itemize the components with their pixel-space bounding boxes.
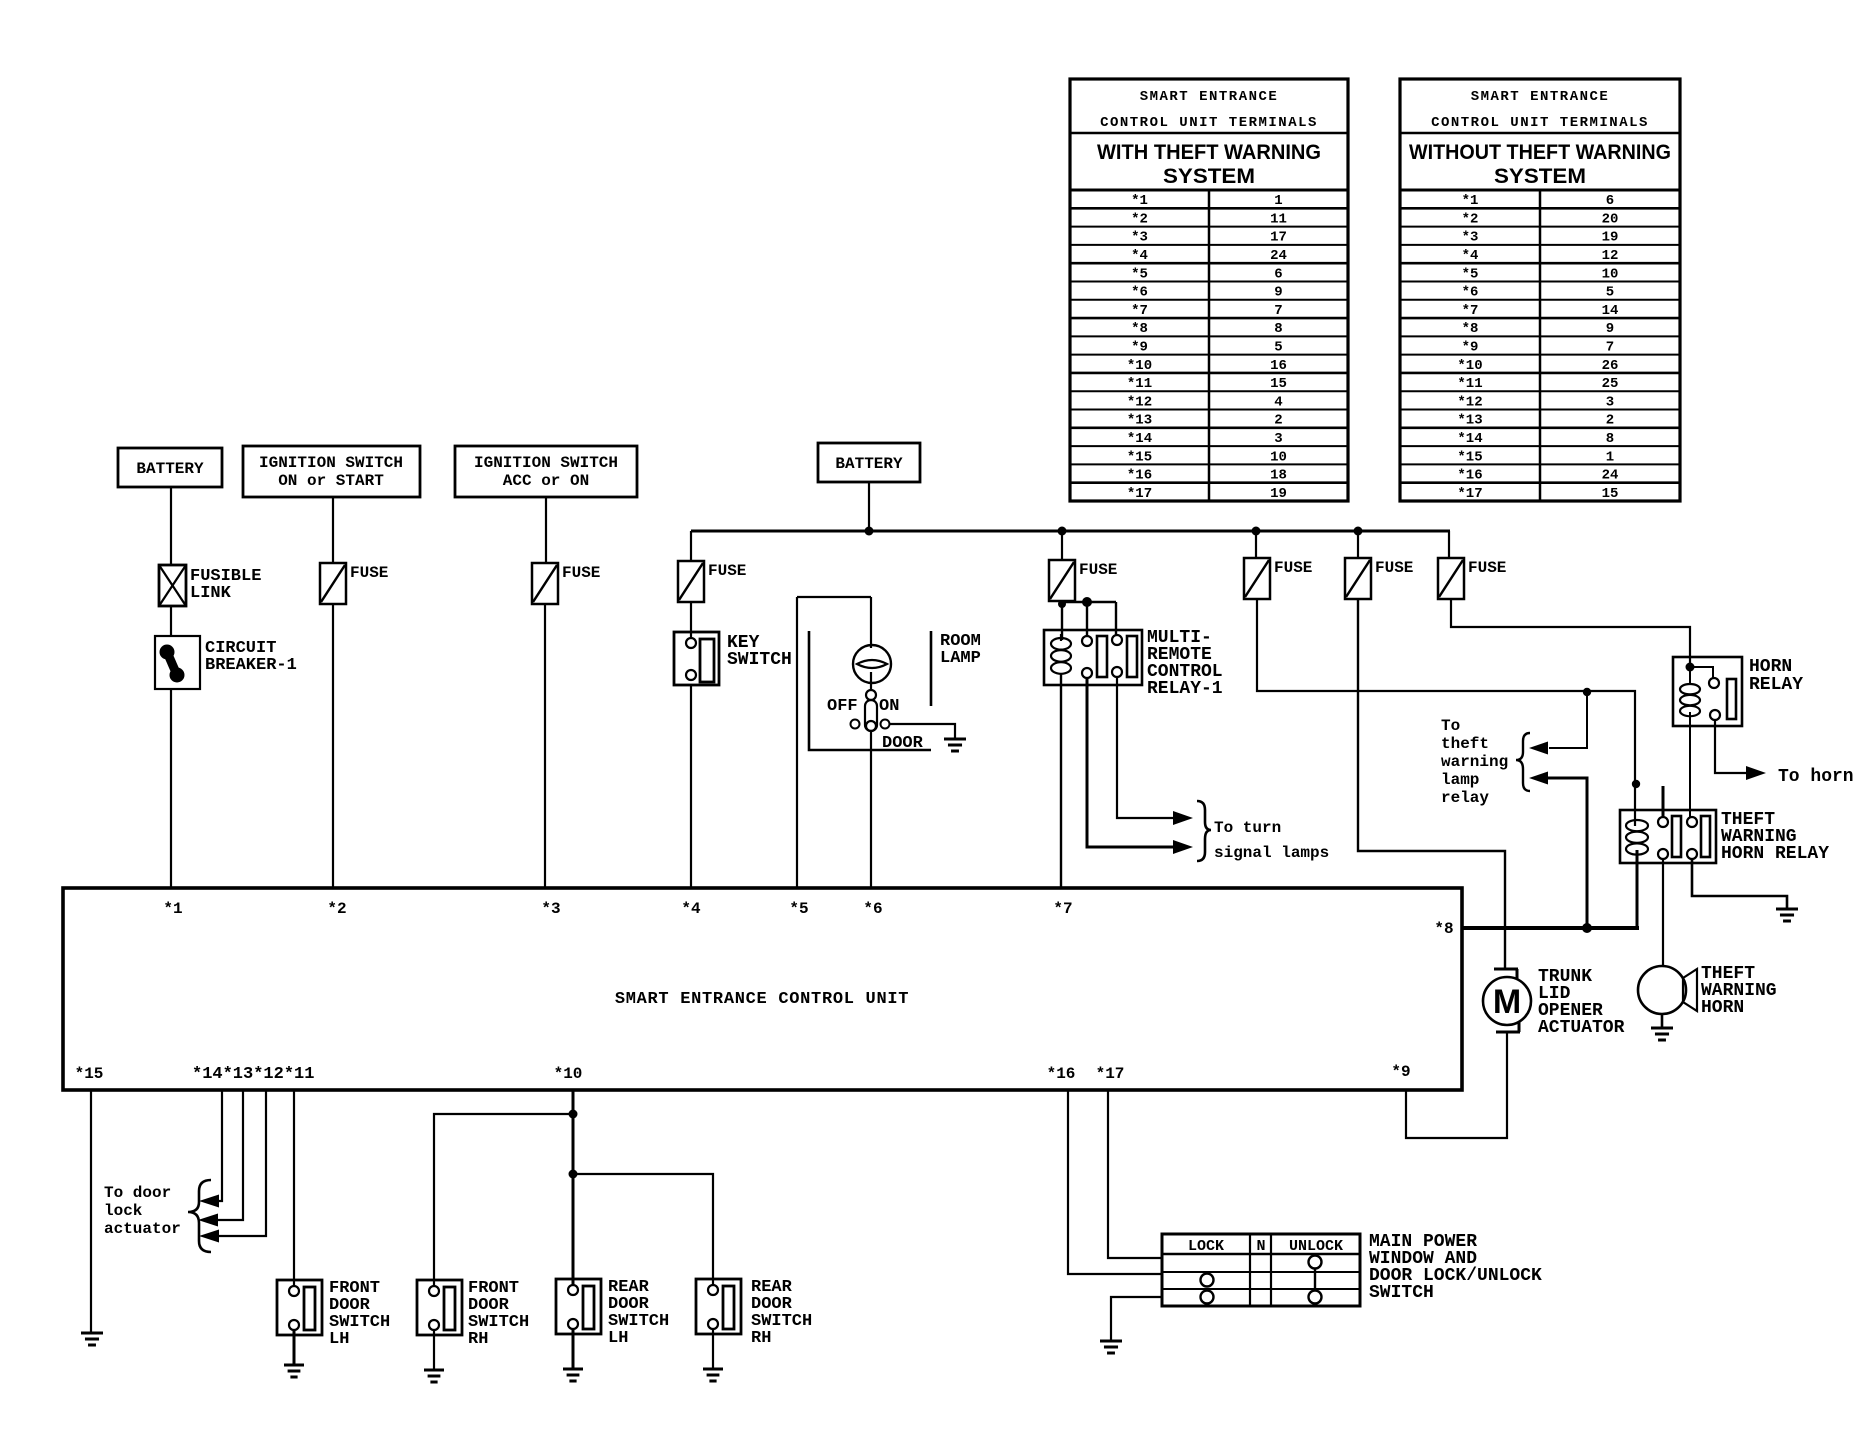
wire bus to fuse F8 (1448, 531, 1450, 558)
svg-text:*11: *11 (1457, 376, 1482, 392)
svg-text:SMART ENTRANCE: SMART ENTRANCE (1471, 89, 1610, 105)
wire terminal *14 to door lock actuator (219, 1090, 222, 1201)
switch contact unlock 2 (1309, 1291, 1322, 1304)
svg-text:M: M (1493, 983, 1521, 1021)
svg-text:signal lamps: signal lamps (1214, 844, 1329, 862)
svg-text:relay: relay (1441, 789, 1489, 807)
svg-text:*2: *2 (1462, 211, 1479, 227)
wire fusible link to circuit breaker (170, 606, 172, 636)
svg-text:BATTERY: BATTERY (835, 455, 903, 473)
svg-text:FUSE: FUSE (708, 562, 746, 580)
svg-text:*3: *3 (1462, 230, 1479, 246)
junction *10/front door switch RH (569, 1110, 578, 1119)
svg-text:*17: *17 (1127, 486, 1152, 502)
svg-text:To: To (1441, 717, 1460, 735)
wire fuse F7 to trunk lid opener actuator (1358, 599, 1505, 968)
wire room lamp feed top (797, 596, 871, 598)
wire terminal *15 to ground (90, 1090, 92, 1333)
horn relay (1673, 657, 1742, 726)
wire bus to fuse F5 (1061, 531, 1063, 560)
svg-text:4: 4 (1274, 394, 1282, 410)
svg-text:*2: *2 (327, 900, 346, 918)
lamp switch pivot (866, 690, 876, 700)
front door switch LH (277, 1280, 322, 1335)
svg-text:26: 26 (1602, 358, 1619, 374)
table: smart entrance control unit terminals WITH THEFT WARNING (1070, 79, 1348, 501)
wire lamp switch to terminal *6 (870, 731, 872, 888)
wire rear door switch LH to ground (572, 1329, 575, 1369)
svg-text:*15: *15 (1457, 449, 1482, 465)
wire fuse F4 to key switch (690, 602, 692, 638)
svg-text:ACTUATOR: ACTUATOR (1538, 1018, 1625, 1038)
arrow to turn signal lamps (lower) (1173, 840, 1193, 854)
lamp switch OFF contact (851, 720, 860, 729)
junction bus/fuse F6 (1252, 527, 1261, 536)
svg-text:17: 17 (1270, 230, 1287, 246)
ignition switch ON or START source box (243, 446, 420, 497)
switch contact lock 2 (1201, 1291, 1214, 1304)
wire theft warning lamp relay (lower) to *8 line (1548, 778, 1587, 928)
svg-text:*5: *5 (789, 900, 808, 918)
wire branch to front door switch RH (434, 1114, 573, 1286)
brace theft warning lamp relay (1516, 733, 1530, 791)
svg-text:*14: *14 (1457, 431, 1482, 447)
room lamp enclosure bracket (809, 631, 931, 750)
lamp switch ON contact (881, 720, 890, 729)
lamp switch lever (865, 700, 877, 731)
svg-text:*4: *4 (681, 900, 701, 918)
svg-text:RH: RH (751, 1329, 771, 1348)
svg-text:*17: *17 (1096, 1065, 1125, 1083)
ground (main power window switch) (1100, 1340, 1122, 1343)
svg-text:*9: *9 (1462, 340, 1479, 356)
svg-text:2: 2 (1606, 413, 1614, 429)
wire theft relay to theft warning horn (1662, 859, 1664, 966)
svg-text:*1: *1 (163, 900, 182, 918)
wire battery1 to fusible link (170, 487, 172, 565)
svg-text:FUSE: FUSE (1274, 559, 1312, 577)
wire terminal *17 to main power window switch (1108, 1090, 1162, 1258)
stub above theft relay pin (1662, 786, 1665, 818)
svg-text:*14: *14 (1127, 431, 1152, 447)
svg-text:20: 20 (1602, 211, 1619, 227)
svg-text:*13: *13 (1457, 413, 1482, 429)
svg-text:10: 10 (1270, 449, 1287, 465)
svg-text:CONTROL UNIT TERMINALS: CONTROL UNIT TERMINALS (1100, 115, 1318, 131)
svg-text:LAMP: LAMP (940, 649, 981, 668)
svg-text:*1: *1 (1462, 193, 1479, 209)
svg-text:12: 12 (1602, 248, 1619, 264)
svg-text:CONTROL UNIT TERMINALS: CONTROL UNIT TERMINALS (1431, 115, 1649, 131)
svg-text:To horn: To horn (1778, 767, 1854, 787)
svg-text:BREAKER-1: BREAKER-1 (205, 656, 297, 675)
svg-text:16: 16 (1270, 358, 1287, 374)
junction relay feed (1082, 597, 1092, 607)
svg-text:OFF: OFF (827, 697, 858, 716)
svg-text:*7: *7 (1131, 303, 1148, 319)
wire terminal *5 riser (796, 597, 798, 888)
wire bus to fuse F7 (1357, 531, 1359, 558)
wire terminal *10 to rear door switch LH (572, 1090, 575, 1285)
svg-text:actuator: actuator (104, 1220, 181, 1238)
svg-text:WITHOUT THEFT WARNING: WITHOUT THEFT WARNING (1409, 141, 1671, 164)
svg-text:9: 9 (1606, 321, 1614, 337)
fuse F2 (320, 563, 346, 604)
svg-text:warning: warning (1441, 753, 1508, 771)
wire ON contact to ground (890, 724, 955, 739)
svg-text:*16: *16 (1127, 468, 1152, 484)
svg-text:7: 7 (1274, 303, 1282, 319)
svg-text:*9: *9 (1391, 1063, 1410, 1081)
svg-text:*13: *13 (1127, 413, 1152, 429)
wire front door switch RH to ground (433, 1330, 435, 1370)
svg-text:*7: *7 (1053, 900, 1072, 918)
svg-text:15: 15 (1602, 486, 1619, 502)
wire fuse F6 to theft warning horn relay coil (1257, 599, 1635, 826)
svg-text:*8: *8 (1131, 321, 1148, 337)
wire front door switch LH to ground (293, 1330, 296, 1365)
svg-text:*2: *2 (1131, 211, 1148, 227)
svg-text:ON: ON (879, 697, 899, 716)
svg-text:15: 15 (1270, 376, 1287, 392)
fusible link (159, 565, 186, 606)
wire key switch to terminal *4 (690, 685, 692, 888)
svg-text:FUSE: FUSE (1079, 561, 1117, 579)
fuse F8 (1438, 558, 1464, 599)
svg-text:3: 3 (1274, 431, 1282, 447)
svg-text:*16: *16 (1457, 468, 1482, 484)
wire ignition1 to fuse F2 (332, 497, 334, 563)
wire ignition2 to fuse F3 (545, 497, 547, 563)
table: smart entrance control unit terminals WITHOUT THEFT WARNING (1400, 79, 1680, 501)
svg-text:*15: *15 (1127, 449, 1152, 465)
svg-text:6: 6 (1606, 193, 1614, 209)
svg-text:3: 3 (1606, 394, 1614, 410)
front door switch RH (417, 1280, 462, 1335)
wire terminal *12 to door lock actuator (219, 1090, 266, 1236)
svg-text:FUSE: FUSE (562, 564, 600, 582)
ground (theft warning horn) (1651, 1027, 1673, 1030)
smart entrance control unit (63, 888, 1462, 1090)
ground (terminal *15) (81, 1332, 103, 1335)
bus wire (battery feed) (691, 530, 1450, 533)
junction *10/rear door switch RH (569, 1170, 578, 1179)
arrow door lock actuator 1 (199, 1195, 219, 1208)
wire battery2 to bus (868, 482, 870, 531)
svg-text:*12: *12 (1127, 394, 1152, 410)
svg-text:FUSE: FUSE (1468, 559, 1506, 577)
arrow door lock actuator 3 (199, 1230, 219, 1243)
junction coil feed (1632, 780, 1640, 788)
svg-text:SMART ENTRANCE: SMART ENTRANCE (1140, 89, 1279, 105)
svg-text:HORN RELAY: HORN RELAY (1721, 844, 1829, 864)
ignition switch ACC or ON source box (455, 446, 637, 497)
wire relay pin feeds (1062, 601, 1116, 603)
svg-text:WITH THEFT WARNING: WITH THEFT WARNING (1097, 141, 1321, 164)
svg-text:*4: *4 (1462, 248, 1479, 264)
svg-text:To door: To door (104, 1184, 171, 1202)
brace door lock actuator (188, 1180, 211, 1252)
junction on *8 wire (1582, 923, 1592, 933)
ground (front door switch RH) (424, 1369, 444, 1372)
svg-text:HORN: HORN (1701, 998, 1744, 1018)
wire to lamp (870, 597, 872, 648)
svg-text:14: 14 (1602, 303, 1619, 319)
main power window and door lock/unlock switch (1162, 1234, 1360, 1306)
wire terminal *13 to door lock actuator (218, 1090, 243, 1220)
svg-text:1: 1 (1606, 449, 1614, 465)
arrow door lock actuator 2 (198, 1214, 218, 1227)
svg-text:8: 8 (1274, 321, 1282, 337)
svg-text:2: 2 (1274, 413, 1282, 429)
wire main power window switch to ground (1111, 1297, 1162, 1341)
svg-text:*5: *5 (1462, 266, 1479, 282)
wire bus to fuse F4 (690, 531, 692, 561)
svg-text:LINK: LINK (190, 584, 232, 603)
wire relay lower-left pin to turn signal lamps (1087, 678, 1174, 847)
brace turn signal lamps (1197, 801, 1211, 861)
arrow to theft warning lamp relay (upper) (1529, 742, 1548, 755)
svg-text:11: 11 (1270, 211, 1287, 227)
svg-text:19: 19 (1602, 230, 1619, 246)
wire circuit breaker to terminal *1 (170, 689, 172, 888)
switch contact lock 1 (1201, 1274, 1214, 1287)
svg-text:*1: *1 (1131, 193, 1148, 209)
key switch (674, 632, 719, 685)
wire theft relay coil to *8 line (1636, 850, 1639, 928)
svg-text:SYSTEM: SYSTEM (1163, 165, 1255, 188)
room lamp bulb (853, 645, 891, 683)
theft warning horn relay (1620, 810, 1716, 863)
rear door switch RH (696, 1279, 741, 1334)
wire theft relay to ground (1692, 859, 1787, 909)
svg-text:LH: LH (329, 1330, 349, 1349)
svg-text:*6: *6 (1131, 285, 1148, 301)
switch contact unlock 1 (1309, 1256, 1322, 1269)
svg-text:24: 24 (1270, 248, 1287, 264)
svg-text:lamp: lamp (1441, 771, 1479, 789)
wire fuse F8 to horn relay (1451, 599, 1690, 670)
svg-text:25: 25 (1602, 376, 1619, 392)
theft warning horn H1 (1638, 966, 1686, 1014)
wire horn relay to theft warning horn relay (1689, 726, 1691, 818)
svg-text:9: 9 (1274, 285, 1282, 301)
svg-text:1: 1 (1274, 193, 1282, 209)
svg-text:*8: *8 (1434, 920, 1453, 938)
junction bus/fuse F5 (1058, 527, 1067, 536)
svg-text:DOOR: DOOR (882, 734, 924, 753)
svg-text:*10: *10 (1127, 358, 1152, 374)
multi-remote control relay-1 (1044, 630, 1142, 685)
svg-text:SWITCH: SWITCH (727, 650, 792, 670)
svg-text:18: 18 (1270, 468, 1287, 484)
svg-text:*11: *11 (1127, 376, 1152, 392)
svg-text:*8: *8 (1462, 321, 1479, 337)
fuse F6 (1244, 558, 1270, 599)
junction below fuse F5 (1058, 600, 1066, 608)
svg-text:IGNITION SWITCH: IGNITION SWITCH (474, 454, 618, 472)
svg-text:RELAY: RELAY (1749, 675, 1803, 695)
switch contact link (1314, 1269, 1316, 1290)
fuse F5 (1049, 560, 1075, 601)
wire actuator to terminal *9 (1406, 1032, 1507, 1138)
ground (rear door switch RH) (703, 1368, 723, 1371)
rear door switch LH (556, 1279, 601, 1334)
svg-text:*6: *6 (1462, 285, 1479, 301)
svg-text:*5: *5 (1131, 266, 1148, 282)
svg-text:*17: *17 (1457, 486, 1482, 502)
svg-text:SYSTEM: SYSTEM (1494, 165, 1586, 188)
svg-text:*9: *9 (1131, 340, 1148, 356)
arrow to theft warning lamp relay (lower) (1529, 772, 1548, 785)
svg-text:SWITCH: SWITCH (1369, 1283, 1434, 1303)
svg-text:*4: *4 (1131, 248, 1148, 264)
svg-text:24: 24 (1602, 468, 1619, 484)
wire relay lower-right pin to turn signal lamps (1117, 677, 1174, 818)
ground (front door switch LH) (284, 1364, 304, 1367)
svg-text:ACC or ON: ACC or ON (503, 472, 589, 490)
ground (theft warning horn relay) (1776, 908, 1798, 911)
svg-text:BATTERY: BATTERY (136, 460, 204, 478)
svg-text:LH: LH (608, 1329, 628, 1348)
junction battery2/bus (865, 527, 874, 536)
wire relay coil to terminal *7 (1060, 674, 1062, 888)
junction theft lamp branch (1583, 688, 1591, 696)
junction bus/fuse F7 (1354, 527, 1363, 536)
wire horn relay to horn (1715, 720, 1749, 773)
svg-text:5: 5 (1606, 285, 1614, 301)
svg-text:FUSE: FUSE (1375, 559, 1413, 577)
wire fuse F5 down (1061, 601, 1063, 640)
svg-text:19: 19 (1270, 486, 1287, 502)
svg-text:RELAY-1: RELAY-1 (1147, 679, 1223, 699)
svg-text:*15: *15 (75, 1065, 104, 1083)
svg-text:ON or START: ON or START (278, 472, 384, 490)
wire horn to ground (1661, 1014, 1664, 1028)
wire fuse F3 to terminal *3 (544, 604, 546, 888)
ground (room lamp) (944, 738, 966, 741)
svg-text:7: 7 (1606, 340, 1614, 356)
wire terminal *16 to main power window switch (1068, 1090, 1162, 1274)
svg-text:*3: *3 (1131, 230, 1148, 246)
svg-text:*10: *10 (554, 1065, 583, 1083)
fuse F7 (1345, 558, 1371, 599)
svg-text:*14*13*12*11: *14*13*12*11 (192, 1065, 314, 1084)
fuse F3 (532, 563, 558, 604)
svg-text:*3: *3 (541, 900, 560, 918)
svg-text:lock: lock (104, 1202, 143, 1220)
arrow to turn signal lamps (upper) (1173, 811, 1193, 825)
svg-text:HORN: HORN (1749, 657, 1792, 677)
svg-text:*6: *6 (863, 900, 882, 918)
trunk lid opener actuator M1 (1494, 968, 1518, 971)
wire branch to theft warning lamp relay (upper) (1549, 692, 1587, 748)
svg-text:RH: RH (468, 1330, 488, 1349)
wire terminal *11 to front door switch LH (293, 1090, 295, 1286)
svg-text:8: 8 (1606, 431, 1614, 447)
svg-text:10: 10 (1602, 266, 1619, 282)
wire bus to fuse F6 (1255, 531, 1257, 558)
ground (rear door switch LH) (563, 1368, 583, 1371)
fuse F4 (678, 561, 704, 602)
wire rear door switch RH to ground (712, 1329, 714, 1369)
svg-text:UNLOCK: UNLOCK (1289, 1238, 1343, 1255)
svg-text:To turn: To turn (1214, 819, 1281, 837)
arrow to horn (1746, 766, 1766, 780)
wire branch to rear door switch RH (573, 1174, 713, 1285)
svg-text:theft: theft (1441, 735, 1489, 753)
svg-text:IGNITION SWITCH: IGNITION SWITCH (259, 454, 403, 472)
wire terminal *8 (1462, 926, 1639, 930)
svg-text:*10: *10 (1457, 358, 1482, 374)
svg-text:*7: *7 (1462, 303, 1479, 319)
svg-text:*16: *16 (1047, 1065, 1076, 1083)
svg-text:SMART ENTRANCE CONTROL UNIT: SMART ENTRANCE CONTROL UNIT (615, 990, 909, 1009)
battery B2 (center) (818, 443, 920, 482)
svg-text:6: 6 (1274, 266, 1282, 282)
svg-text:FUSE: FUSE (350, 564, 388, 582)
wire fuse F2 to terminal *2 (332, 604, 334, 888)
svg-text:LOCK: LOCK (1188, 1238, 1224, 1255)
svg-text:*12: *12 (1457, 394, 1482, 410)
circuit breaker-1 (155, 636, 200, 689)
battery B1 (left) (118, 448, 222, 487)
svg-text:N: N (1256, 1238, 1265, 1255)
svg-text:5: 5 (1274, 340, 1282, 356)
